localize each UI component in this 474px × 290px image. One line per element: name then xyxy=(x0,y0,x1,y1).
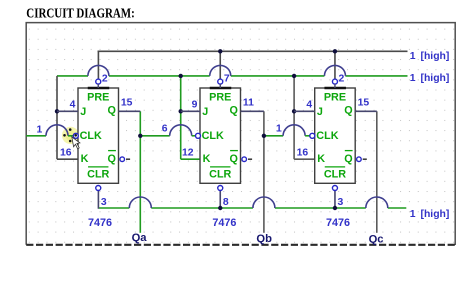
svg-text:Q: Q xyxy=(229,153,237,165)
svg-text:CLK: CLK xyxy=(202,130,224,142)
svg-text:CLR: CLR xyxy=(87,168,109,180)
junction on top rail at U3 xyxy=(333,49,337,53)
svg-text:1: 1 xyxy=(410,51,416,62)
net CLR rail wire segments xyxy=(98,207,129,209)
svg-text:CLK: CLK xyxy=(316,130,338,142)
svg-text:7476: 7476 xyxy=(88,217,112,229)
net JK-HIGH rail wire segments xyxy=(57,75,88,77)
junction CLR rail at U2 xyxy=(218,206,222,210)
svg-text:3: 3 xyxy=(338,197,344,208)
svg-text:1: 1 xyxy=(276,123,282,134)
pin K U3 (16) xyxy=(297,147,309,158)
pin J U1 (4) xyxy=(57,100,78,112)
svg-text:12: 12 xyxy=(182,147,194,158)
svg-text:15: 15 xyxy=(121,98,133,109)
svg-text:Q: Q xyxy=(344,105,352,117)
svg-text:[high]: [high] xyxy=(421,73,450,84)
svg-text:J: J xyxy=(317,106,323,118)
pin Qbar U3 unconnected xyxy=(357,157,367,162)
junction J node U3 xyxy=(292,109,296,113)
pin PRE U1 (2) xyxy=(96,74,108,88)
svg-text:2: 2 xyxy=(339,74,345,85)
hump where JK rail crosses U2 PRE drop xyxy=(210,65,231,76)
svg-text:15: 15 xyxy=(358,98,370,109)
wire U3 CLR to rail xyxy=(334,190,336,208)
svg-text:4: 4 xyxy=(306,100,312,111)
pin J U3 (4) xyxy=(294,100,315,112)
hump CLR rail over Qb xyxy=(253,197,275,208)
pin PRE U3 (2) xyxy=(332,74,344,88)
svg-text:11: 11 xyxy=(243,98,254,109)
wire U2 Q output down to Qb xyxy=(263,111,265,233)
junction J node U2 xyxy=(179,109,183,113)
wire U1 CLR to rail xyxy=(97,190,99,208)
svg-text:CLK: CLK xyxy=(80,130,102,142)
pin CLK U2 (6) xyxy=(196,133,201,138)
svg-text:16: 16 xyxy=(60,147,72,158)
svg-text:PRE: PRE xyxy=(87,92,109,104)
pin Qbar U2 unconnected xyxy=(242,157,252,162)
svg-text:[high]: [high] xyxy=(421,51,450,62)
wire JK vertical to U1 xyxy=(56,76,58,159)
pin Q U2 (11) xyxy=(241,98,264,112)
hump where JK rail crosses U1 PRE drop xyxy=(88,65,109,76)
wire JK vertical to U2 xyxy=(180,76,182,159)
wire U3 Q output down to Qc xyxy=(376,111,378,233)
pin CLR U2 (8) xyxy=(218,186,229,209)
junction JK rail at U3 xyxy=(292,74,296,78)
flip-flop U2 7476 JK xyxy=(200,88,241,183)
svg-text:9: 9 xyxy=(192,100,198,111)
svg-text:K: K xyxy=(317,153,325,165)
hump where JK rail crosses U3 PRE drop xyxy=(324,65,345,76)
wire U1 Q output down to Qa xyxy=(139,111,141,233)
svg-text:CIRCUIT DIAGRAM:: CIRCUIT DIAGRAM: xyxy=(26,7,135,22)
junction on top rail at U2 xyxy=(218,49,222,53)
svg-text:4: 4 xyxy=(70,100,76,111)
pin K U2 (12) xyxy=(182,147,194,158)
svg-text:Q: Q xyxy=(107,153,115,165)
pin Q U3 (15) xyxy=(355,98,377,112)
svg-text:3: 3 xyxy=(101,197,107,208)
svg-text:1: 1 xyxy=(410,73,416,84)
svg-text:K: K xyxy=(81,153,89,165)
wire K feed U3 xyxy=(294,158,315,160)
wire drop to U1 PRE xyxy=(97,51,99,80)
svg-text:Qa: Qa xyxy=(132,232,148,244)
wire K feed U1 xyxy=(57,158,78,160)
svg-text:CLR: CLR xyxy=(324,168,346,180)
flip-flop U3 7476 JK xyxy=(315,88,356,183)
svg-text:K: K xyxy=(203,153,211,165)
svg-text:Q: Q xyxy=(344,153,352,165)
junction J node U1 xyxy=(55,109,59,113)
pin CLK U3 (1) xyxy=(310,133,315,138)
junction Q net U2 xyxy=(262,134,266,138)
pin CLK U1 (1) xyxy=(73,133,78,138)
svg-text:7476: 7476 xyxy=(212,217,236,229)
junction JK rail at U2 xyxy=(179,74,183,78)
svg-text:[high]: [high] xyxy=(421,209,450,220)
svg-text:Qb: Qb xyxy=(256,233,272,245)
svg-text:8: 8 xyxy=(223,197,229,208)
pin PRE U2 (7) xyxy=(218,74,230,88)
wire U1 Q to U2 CLK xyxy=(140,135,169,137)
svg-text:Q: Q xyxy=(229,105,237,117)
hump CLR rail over Qc xyxy=(366,197,388,208)
wire U2 CLR to rail xyxy=(219,190,221,208)
wire U2 Q to U3 CLK xyxy=(264,135,283,137)
svg-text:Q: Q xyxy=(107,105,115,117)
svg-text:J: J xyxy=(202,106,208,118)
wire JK vertical to U3 xyxy=(293,76,295,159)
svg-text:Qc: Qc xyxy=(369,234,384,246)
svg-text:J: J xyxy=(80,106,86,118)
svg-text:1: 1 xyxy=(410,209,416,220)
junction CLR rail at U3 xyxy=(333,206,337,210)
svg-text:PRE: PRE xyxy=(324,92,346,104)
wire drop to U2 PRE xyxy=(219,51,221,79)
pin CLR U3 (3) xyxy=(332,186,343,209)
cursor crosshair at U1 CLK xyxy=(63,128,80,149)
pin J U2 (9) xyxy=(181,100,200,112)
flip-flop U1 7476 JK xyxy=(78,88,119,183)
hump CLR rail over Qa xyxy=(129,197,151,208)
svg-text:CLR: CLR xyxy=(209,168,231,180)
pin Q U1 (15) xyxy=(119,98,141,112)
junction Q net U1 xyxy=(138,134,142,138)
svg-text:2: 2 xyxy=(102,74,108,85)
pin Qbar U1 unconnected xyxy=(120,157,130,162)
wire K feed U2 xyxy=(181,158,200,160)
svg-text:1: 1 xyxy=(37,124,43,135)
wire drop to U3 PRE xyxy=(334,51,336,79)
cursor highlight glow at U1 CLK xyxy=(62,127,79,144)
pin K U1 (16) xyxy=(60,147,72,158)
svg-text:7476: 7476 xyxy=(326,217,350,229)
wire clock input to U1 CLK xyxy=(26,135,46,137)
svg-text:6: 6 xyxy=(162,123,168,134)
net VCC-PRE top rail wire xyxy=(98,50,408,52)
svg-text:7: 7 xyxy=(224,74,230,85)
pin CLR U1 (3) xyxy=(96,186,107,209)
svg-text:16: 16 xyxy=(297,147,309,158)
svg-text:PRE: PRE xyxy=(209,92,231,104)
